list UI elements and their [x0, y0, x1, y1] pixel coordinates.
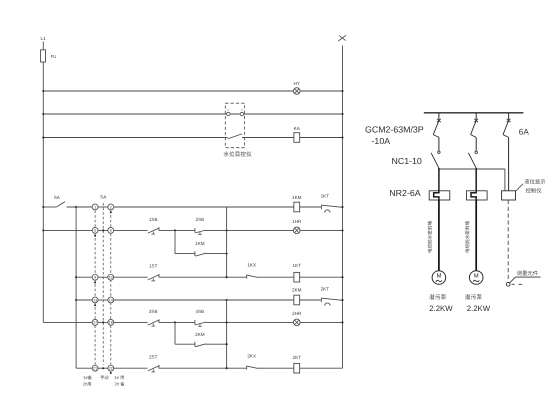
svg-text:5: 5	[94, 229, 96, 233]
svg-text:2KM: 2KM	[195, 332, 205, 337]
svg-text:1: 1	[94, 205, 96, 209]
svg-text:14: 14	[109, 298, 113, 302]
svg-text:21: 21	[93, 367, 97, 371]
svg-text:M: M	[474, 272, 479, 279]
svg-text:2.2KW: 2.2KW	[467, 304, 491, 313]
svg-text:1#备: 1#备	[83, 375, 93, 380]
svg-text:2SB: 2SB	[196, 217, 205, 222]
svg-text:2KT: 2KT	[293, 355, 302, 360]
svg-text:1KT: 1KT	[321, 194, 330, 199]
svg-text:FU: FU	[51, 54, 57, 59]
svg-text:1SB: 1SB	[149, 217, 158, 222]
svg-text:1KT: 1KT	[293, 263, 302, 268]
svg-text:潜污泵: 潜污泵	[465, 294, 483, 301]
svg-text:2KM: 2KM	[292, 288, 302, 293]
svg-text:2KT: 2KT	[321, 286, 330, 291]
svg-text:控制仪: 控制仪	[526, 188, 543, 195]
svg-text:9: 9	[94, 276, 96, 280]
svg-text:2: 2	[110, 205, 112, 209]
svg-text:-10A: -10A	[372, 136, 391, 146]
svg-text:1# 用: 1# 用	[114, 375, 124, 380]
svg-text:1ST: 1ST	[149, 264, 158, 269]
svg-text:6A: 6A	[519, 128, 530, 137]
svg-text:1HR: 1HR	[292, 219, 302, 224]
svg-text:17: 17	[93, 321, 97, 325]
svg-text:18: 18	[109, 321, 113, 325]
svg-text:2KX: 2KX	[247, 353, 256, 358]
svg-text:KA: KA	[294, 126, 301, 131]
svg-text:SA: SA	[100, 195, 107, 200]
svg-text:SA: SA	[54, 195, 61, 200]
svg-text:NC1-10: NC1-10	[392, 156, 422, 166]
svg-text:M: M	[436, 272, 441, 279]
svg-text:10: 10	[109, 276, 113, 280]
svg-text:GCM2-63M/3P: GCM2-63M/3P	[365, 124, 424, 134]
svg-text:1KM: 1KM	[292, 195, 302, 200]
svg-text:2ST: 2ST	[149, 355, 158, 360]
svg-text:2# 备: 2# 备	[115, 382, 126, 387]
svg-text:测量元件: 测量元件	[517, 270, 539, 277]
svg-text:6: 6	[110, 229, 112, 233]
svg-text:13: 13	[93, 298, 97, 302]
svg-text:液位显示: 液位显示	[524, 179, 545, 186]
svg-text:HY: HY	[294, 81, 300, 86]
svg-text:潜污泵: 潜污泵	[429, 294, 447, 301]
svg-text:NR2-6A: NR2-6A	[389, 188, 420, 198]
svg-text:水位显控仪: 水位显控仪	[223, 151, 252, 158]
svg-text:电缆防水密封堵: 电缆防水密封堵	[428, 221, 433, 254]
svg-text:电缆防水密封堵: 电缆防水密封堵	[465, 221, 470, 254]
svg-text:3SB: 3SB	[149, 309, 158, 314]
svg-text:手动: 手动	[100, 375, 108, 380]
svg-text:2#用: 2#用	[83, 382, 92, 387]
svg-text:4SB: 4SB	[196, 309, 205, 314]
svg-text:L1: L1	[41, 36, 47, 41]
svg-text:1KM: 1KM	[195, 241, 205, 246]
svg-text:2.2KW: 2.2KW	[429, 304, 453, 313]
svg-text:1KX: 1KX	[247, 262, 256, 267]
svg-text:2HR: 2HR	[292, 311, 302, 316]
svg-text:22: 22	[109, 367, 113, 371]
